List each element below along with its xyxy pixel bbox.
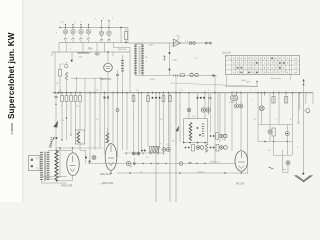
svg-text:Ug Ua Ik: Ug Ua Ik [222,53,232,55]
svg-text:REN 1104: REN 1104 [103,182,115,185]
svg-text:5000: 5000 [173,60,179,62]
svg-text:Wellensch.: Wellensch. [210,162,220,164]
svg-text:REN 904: REN 904 [101,77,112,81]
svg-text:L: L [309,106,310,108]
svg-text:Osz.: Osz. [192,116,197,118]
svg-text:REN 904: REN 904 [118,49,127,51]
svg-text:2x500: 2x500 [229,102,235,104]
svg-text:REN 1104: REN 1104 [100,173,112,176]
svg-text:RGN 354: RGN 354 [62,183,73,187]
svg-text:RE 134: RE 134 [236,183,245,186]
svg-text:W: W [62,120,64,122]
svg-text:4663 w/g: 4663 w/g [45,178,54,180]
svg-text:Supercelohet jun. KW: Supercelohet jun. KW [7,32,16,119]
svg-text:1: 1 [88,24,89,26]
svg-text:Drehko: Drehko [197,171,204,173]
svg-text:2000: 2000 [149,45,155,47]
svg-text:5000: 5000 [246,82,250,84]
svg-text:Netzansch.: Netzansch. [271,77,282,80]
svg-text:Loewe: Loewe [9,122,14,135]
